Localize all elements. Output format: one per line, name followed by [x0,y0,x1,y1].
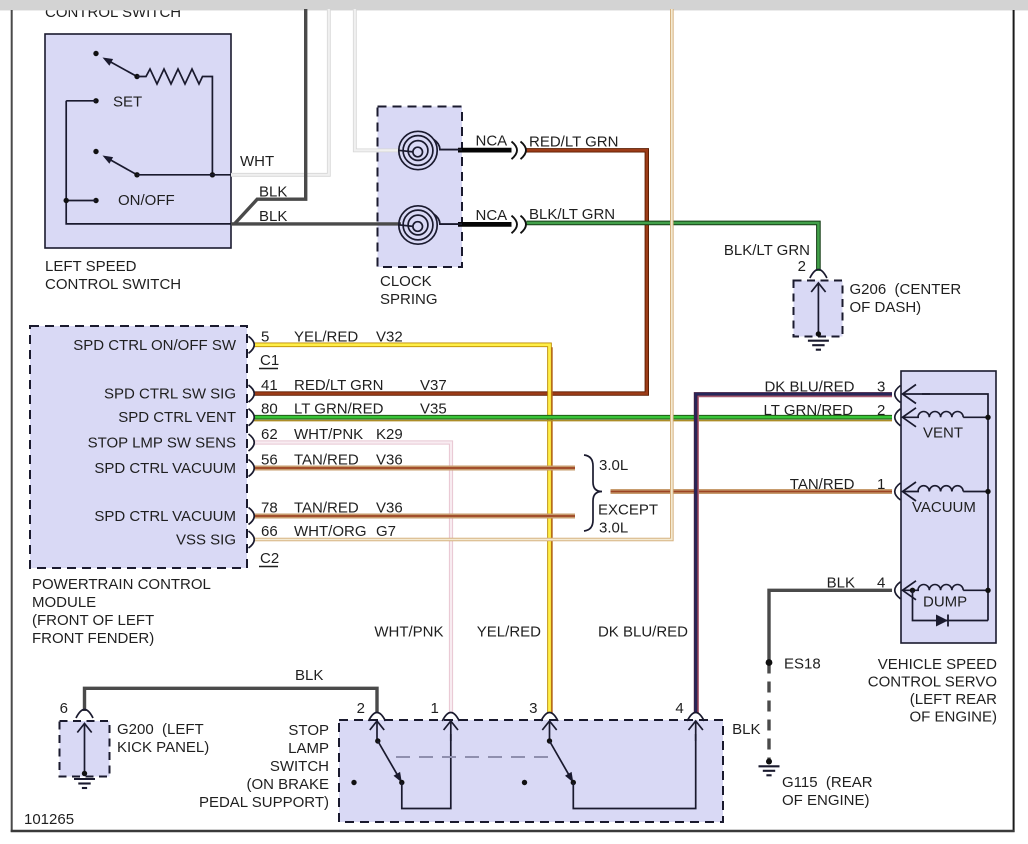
wire BLK: G200 to stop lamp pin 2 [85,688,378,713]
svg-text:2: 2 [798,258,806,275]
svg-text:PEDAL SUPPORT): PEDAL SUPPORT) [199,794,329,811]
svg-text:FRONT FENDER): FRONT FENDER) [32,630,154,647]
frame right border [1013,10,1015,832]
svg-text:V32: V32 [376,328,403,345]
G206 arrow [817,283,819,334]
stop lamp switch arm 2 (pin 3) [549,721,551,741]
svg-text:101265: 101265 [24,811,74,828]
G200 ground box [60,721,110,777]
svg-text:SPD CTRL VACUUM: SPD CTRL VACUUM [94,508,236,525]
svg-text:CLOCK: CLOCK [380,273,432,290]
ground G200 [74,779,95,788]
svg-text:LT GRN/RED: LT GRN/RED [294,401,384,418]
wire DK BLU/RED [696,394,892,713]
svg-text:4: 4 [877,575,885,592]
stop lamp pin 2 [369,713,386,722]
svg-text:1: 1 [430,700,438,717]
svg-text:V36: V36 [376,452,403,469]
stop lamp pin 4 [687,713,704,722]
LT GRN/RED red stripe [254,420,892,422]
svg-text:LT GRN/RED: LT GRN/RED [764,402,854,419]
svg-text:SPD CTRL VENT: SPD CTRL VENT [118,409,236,426]
wire BLK dashed ES18 to G115 [767,663,770,761]
connector arc G200 [76,710,93,719]
svg-text:V36: V36 [376,500,403,517]
connector arc G206 [810,270,827,279]
svg-text:80: 80 [261,401,278,418]
DK BLU/RED red stripe [698,397,892,713]
page frame top grey bar [0,0,1028,10]
svg-text:STOP LMP SW SENS: STOP LMP SW SENS [88,435,236,452]
stop lamp pin 3 [541,713,558,722]
svg-text:RED/LT GRN: RED/LT GRN [529,134,618,151]
svg-text:6: 6 [60,700,68,717]
wire WHT from ON/OFF switch up to top [231,9,329,175]
frame left border [11,10,13,832]
wire RED/LT GRN [254,150,647,393]
svg-text:BLK/LT GRN: BLK/LT GRN [529,206,615,223]
svg-text:K29: K29 [376,426,403,443]
svg-text:CONTROL SERVO: CONTROL SERVO [868,674,997,691]
svg-text:(FRONT OF LEFT: (FRONT OF LEFT [32,612,154,629]
svg-text:WHT: WHT [240,153,274,170]
wire WHT branch to clock spring upper coil [355,9,401,150]
svg-text:BLK: BLK [295,667,323,684]
svg-text:WHT/PNK: WHT/PNK [374,624,443,641]
svg-text:4: 4 [675,700,683,717]
servo diode loop [913,590,989,620]
path contact1 to pin 1 [402,734,451,809]
svg-text:TAN/RED: TAN/RED [790,476,855,493]
wire WHT/ORG [254,9,672,540]
stop lamp switch box [339,720,723,822]
svg-text:3.0L: 3.0L [599,520,628,537]
clock spring lower coil [399,206,463,244]
svg-text:66: 66 [261,523,278,540]
wire TAN/RED 3.0L [254,466,575,471]
connector NCA lower arcs [512,216,518,234]
node: resistor to WHT junction [210,172,215,177]
svg-text:1: 1 [877,476,885,493]
wire ON/OFF arm to box edge [137,174,231,176]
G206 ground box [794,281,843,337]
svg-text:G7: G7 [376,523,396,540]
svg-text:BLK: BLK [732,721,760,738]
svg-text:V35: V35 [420,401,447,418]
svg-text:62: 62 [261,426,278,443]
svg-text:3: 3 [877,379,885,396]
svg-text:OF ENGINE): OF ENGINE) [909,709,997,726]
YEL/RED red stripe [551,347,553,713]
wire BLK from top to switch elbow [235,9,306,224]
svg-text:SPD CTRL VACUUM: SPD CTRL VACUUM [94,460,236,477]
svg-text:DK BLU/RED: DK BLU/RED [764,379,854,396]
wire BLK: servo pin 4 to ES18 [769,590,892,662]
svg-text:3.0L: 3.0L [599,457,628,474]
svg-text:G115 (REAR: G115 (REAR [782,774,873,791]
stop lamp pin 1 [442,713,459,722]
svg-text:EXCEPT: EXCEPT [598,502,658,519]
svg-text:BLK/LT GRN: BLK/LT GRN [724,242,810,259]
svg-text:TAN/RED: TAN/RED [294,452,359,469]
svg-text:3: 3 [529,700,537,717]
powertrain control module box [30,326,247,568]
svg-text:G200 (LEFT: G200 (LEFT [117,721,204,738]
svg-text:WHT/ORG: WHT/ORG [294,523,367,540]
brace engine options [584,455,602,531]
SET switch contact [93,51,98,56]
svg-text:C1: C1 [260,352,279,369]
ON/OFF switch arm [107,158,137,175]
svg-text:YEL/RED: YEL/RED [294,328,358,345]
wire WHT/PNK [254,443,451,714]
resistor R (switch) [137,69,212,175]
path contact2 to pin 4 [573,734,695,809]
svg-text:SET: SET [113,94,142,111]
ON/OFF upper contact [93,149,98,154]
wire SET contact to left rail [66,100,96,102]
wire BLK switch to clock spring lower coil [66,101,400,224]
svg-text:RED/LT GRN: RED/LT GRN [294,377,383,394]
svg-text:DUMP: DUMP [923,594,967,611]
SET label contact [93,98,98,103]
svg-text:BLK: BLK [259,184,287,201]
svg-text:VACUUM: VACUUM [912,499,976,516]
svg-text:V37: V37 [420,377,447,394]
svg-text:BLK: BLK [259,208,287,225]
connector NCA upper arcs [512,142,518,160]
svg-text:ES18: ES18 [784,656,821,673]
NC contact mid [522,780,527,785]
svg-text:OF DASH): OF DASH) [850,299,922,316]
diode D [936,615,948,627]
svg-text:VEHICLE SPEED: VEHICLE SPEED [878,656,997,673]
svg-text:G206 (CENTER: G206 (CENTER [850,281,962,298]
wire NCA lower thick black [440,223,458,225]
SET switch arm [107,60,137,77]
frame bottom border [11,830,1015,832]
left speed control switch box [45,34,231,248]
svg-text:KICK PANEL): KICK PANEL) [117,739,209,756]
svg-text:SPD CTRL SW SIG: SPD CTRL SW SIG [104,386,236,403]
svg-text:VSS SIG: VSS SIG [176,532,236,549]
svg-text:MODULE: MODULE [32,594,96,611]
svg-text:STOP: STOP [288,722,329,739]
svg-text:SPRING: SPRING [380,291,438,308]
G200 arrow [84,724,86,775]
svg-text:(ON BRAKE: (ON BRAKE [246,776,329,793]
svg-text:2: 2 [357,700,365,717]
mechanical linkage dashed [396,756,556,758]
ground G206 [808,341,829,350]
svg-text:WHT/PNK: WHT/PNK [294,426,363,443]
ground G115 [759,766,780,775]
svg-text:78: 78 [261,500,278,517]
svg-text:BLK: BLK [827,575,855,592]
svg-text:TAN/RED: TAN/RED [294,500,359,517]
clock spring upper coil [399,131,463,169]
wire NCA upper thick black [440,149,458,151]
svg-text:C2: C2 [260,550,279,567]
wire TAN/RED to servo [611,489,893,494]
svg-text:NCA: NCA [476,207,508,224]
ON/OFF lower contact [93,198,98,203]
wire BLK/LT GRN [527,223,819,271]
wire YEL/RED [254,345,550,713]
NC contact left [351,780,356,785]
node ES18 [766,659,773,666]
svg-text:SPD CTRL ON/OFF SW: SPD CTRL ON/OFF SW [73,337,237,354]
svg-text:LAMP: LAMP [288,740,329,757]
wire TAN/RED except 3.0L [254,514,575,519]
stop lamp switch arm 1 (pin 2) [376,721,378,741]
clock spring box [378,107,463,268]
wire LT GRN/RED [254,415,892,420]
svg-text:CONTROL SWITCH: CONTROL SWITCH [45,276,181,293]
svg-text:2: 2 [877,402,885,419]
svg-text:VENT: VENT [923,425,963,442]
wire lower contact to rail [66,200,96,202]
vehicle speed control servo box [901,371,996,643]
svg-text:OF ENGINE): OF ENGINE) [782,792,870,809]
svg-text:POWERTRAIN CONTROL: POWERTRAIN CONTROL [32,576,211,593]
svg-text:41: 41 [261,377,278,394]
svg-text:SWITCH: SWITCH [270,758,329,775]
svg-text:DK BLU/RED: DK BLU/RED [598,624,688,641]
svg-text:ON/OFF: ON/OFF [118,192,175,209]
svg-text:5: 5 [261,328,269,345]
svg-text:56: 56 [261,452,278,469]
svg-text:(LEFT REAR: (LEFT REAR [910,691,997,708]
svg-text:LEFT SPEED: LEFT SPEED [45,258,137,275]
svg-text:NCA: NCA [476,133,508,150]
svg-text:YEL/RED: YEL/RED [477,624,541,641]
